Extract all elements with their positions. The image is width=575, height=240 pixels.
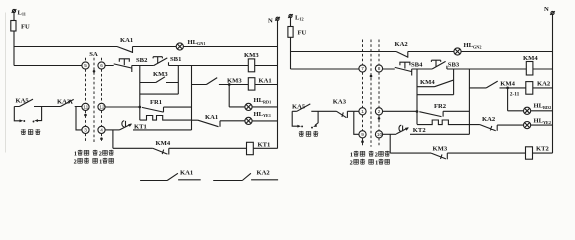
wire: HL-RD1 row <box>229 106 277 108</box>
SA position line 1 (dashed, right half) <box>362 40 364 147</box>
wire: junction column J1 (left of SB1) <box>139 66 141 121</box>
svg-text:KM3: KM3 <box>433 145 448 152</box>
svg-text:10: 10 <box>377 132 383 137</box>
SA position line 2 (dashed, middle, right half) <box>370 40 372 147</box>
svg-text:9: 9 <box>361 132 364 137</box>
wire: lamp tap down to HL-RD1 row <box>228 85 230 107</box>
contact KA2 (feeds HL-YE2) <box>480 125 524 131</box>
lamp HL-GN1 <box>176 43 183 50</box>
svg-text:1: 1 <box>99 158 102 165</box>
svg-text:KA3: KA3 <box>333 98 347 105</box>
SA position line 1 (dashed, left) <box>85 58 87 142</box>
pushbutton SB4 (NC stop) <box>395 62 412 75</box>
wire: lower tie row of SB3/KM4 block <box>417 94 454 96</box>
lamp HL-YE1 <box>245 117 252 124</box>
svg-text:SB2: SB2 <box>136 57 148 64</box>
svg-text:11: 11 <box>83 105 88 110</box>
SA contact terminal 6 <box>98 62 105 69</box>
FR1 heater element (square wave) <box>140 116 192 121</box>
svg-text:SB1: SB1 <box>170 56 181 63</box>
label position row 2 (right): 2号备 动1号备 <box>350 159 390 167</box>
SA closed-position dot (1-2 row) <box>378 117 381 120</box>
wire: KT2 coil to N <box>533 152 553 154</box>
junction (FR2 input) <box>416 110 419 113</box>
svg-text:KM3: KM3 <box>244 52 259 59</box>
contact KA3 (right half, to module) <box>337 111 354 118</box>
lamp HL-RD1 <box>245 103 252 110</box>
svg-text:4: 4 <box>100 128 103 133</box>
svg-text:KT1: KT1 <box>258 142 271 149</box>
SA contact terminal 4 <box>98 126 105 133</box>
wire: HL-YE2 to N <box>531 124 553 126</box>
svg-text:3: 3 <box>84 128 87 133</box>
SA contact terminal 1 <box>359 108 366 115</box>
SA position line 3 (dashed, right half) <box>378 40 380 147</box>
node L11 (phase terminal) <box>12 9 17 13</box>
SA closed-position dot (5-6 row, pos.2) <box>93 70 96 73</box>
time-delay contact KT1 (delayed closing NO) <box>120 121 132 130</box>
svg-text:2: 2 <box>350 159 353 166</box>
wire: KA1 coil to N <box>255 84 278 86</box>
contact KM4 (bottom row) <box>153 148 169 154</box>
SA position line 2 (dashed, middle) <box>93 58 95 142</box>
svg-text:N: N <box>268 17 273 24</box>
wire: KT1 contact to bus <box>133 129 192 131</box>
label KT2 (contact) <box>405 127 409 130</box>
svg-text:KA1: KA1 <box>120 37 133 44</box>
svg-text:7: 7 <box>361 66 364 71</box>
svg-text:KT2: KT2 <box>413 127 427 134</box>
wire: top rail (left half) <box>14 46 278 48</box>
label position row 1: 1号用 手2号用 <box>74 150 114 158</box>
contact KM4 (aux, feeds KA2 coil) <box>469 81 525 88</box>
svg-text:FU: FU <box>21 24 30 31</box>
wire: between KA5 and KA3 (right) <box>311 110 336 112</box>
wire: from SA terminal 4 <box>105 129 119 131</box>
label KT1 (contact) <box>128 124 132 127</box>
svg-text:KA3: KA3 <box>57 99 71 106</box>
coil KM4 <box>526 62 533 76</box>
lamp HL-GN2 <box>454 48 461 55</box>
wire: main row to KM3 coil <box>169 65 249 67</box>
contact KA2 (NO, on top rail) <box>396 52 408 58</box>
SA closed-position dot (11-12 row, pos.1) <box>84 114 87 117</box>
junction (FR1 input) <box>138 106 141 109</box>
svg-text:1: 1 <box>74 150 77 157</box>
contact KA1 (feeds HL-YE1) <box>192 120 245 127</box>
svg-text:KA2: KA2 <box>395 41 409 48</box>
SA contact terminal 5 <box>82 62 89 69</box>
wire: KT1 coil to N <box>253 147 277 149</box>
svg-text:SB3: SB3 <box>448 62 460 69</box>
svg-text:KM4: KM4 <box>523 55 538 62</box>
lamp HL-YE2 <box>524 122 531 129</box>
svg-text:KA2: KA2 <box>482 116 496 123</box>
wire: module stub middle (right half) <box>315 111 318 125</box>
wire: lamp tap down to HL-RD2 row <box>507 88 509 111</box>
contact KM4 (self-holding) <box>417 80 453 87</box>
wire: KT2 contact to bus <box>410 133 469 135</box>
wire: main row to KM4 coil <box>447 68 526 70</box>
SA position line 3 (dashed, right) <box>101 58 103 142</box>
SA contact terminal 3 <box>82 126 89 133</box>
contact KM3 (bottom row right) <box>431 153 447 159</box>
fuse FU (left) <box>11 21 16 32</box>
svg-text:KM4: KM4 <box>156 140 171 147</box>
svg-text:KA1: KA1 <box>259 77 272 84</box>
pushbutton SB1 (NO start) <box>153 57 168 66</box>
pushbutton SB3 (NO start) <box>431 60 447 69</box>
contact KA5 (right half, to module) <box>292 104 310 111</box>
wire: module stub left (arrow) <box>14 107 19 121</box>
SA contact terminal 9 <box>359 131 366 138</box>
svg-text:2: 2 <box>99 150 102 157</box>
svg-text:KA2: KA2 <box>537 81 551 88</box>
svg-text:KA5: KA5 <box>16 98 30 105</box>
thermal relay contact FR1 <box>142 107 192 112</box>
label 接模块 (left) <box>21 129 26 134</box>
svg-text:KT2: KT2 <box>536 145 550 152</box>
wire: between KA5 and KA3 <box>34 106 60 108</box>
wire: module stub left (right half) <box>292 111 298 126</box>
svg-text:FR1: FR1 <box>150 99 162 106</box>
junction (lamp tap on KA2 coil row) <box>506 87 509 90</box>
coil KM3 <box>248 59 254 72</box>
FR2 heater element (square wave) <box>417 120 480 125</box>
svg-text:KA1: KA1 <box>205 114 218 121</box>
wire: neutral rail N (left half) <box>277 20 279 148</box>
wire: between SB4 and SB3 <box>412 68 432 70</box>
coil KA2 <box>526 82 533 95</box>
wire: lower tie row of SB1/KM3 block <box>140 93 179 95</box>
node L12 (phase terminal) <box>288 14 293 18</box>
SA contact terminal 11 <box>82 103 89 110</box>
wire: junction column J2 (right half) <box>453 69 455 95</box>
thermal relay contact FR2 <box>419 111 469 116</box>
wire: HL-RD2 row <box>508 110 553 112</box>
wire: from SA terminal 2 to FR2 <box>383 110 417 112</box>
svg-text:2: 2 <box>74 158 77 165</box>
svg-text:2-11: 2-11 <box>510 91 520 97</box>
svg-text:12: 12 <box>99 105 105 110</box>
contact KA1 (bottom legend) <box>140 173 201 180</box>
wire: KM3 coil to N <box>255 65 278 67</box>
wire: HL-YE1 to N <box>252 120 277 122</box>
junction (lamp tap on KA1 coil row) <box>228 83 231 86</box>
svg-text:1: 1 <box>375 159 378 166</box>
SA contact terminal 8 <box>375 65 382 72</box>
faint scan artifact line <box>5 13 7 153</box>
fuse FU (right) <box>288 27 293 38</box>
SA closed-position dot (9-10 row) <box>361 140 364 143</box>
coil KT1 <box>247 142 254 154</box>
wire: left supply rail x=13.5 <box>13 13 15 66</box>
svg-text:8: 8 <box>378 66 381 71</box>
wire: junction column J2 (right of SB1) <box>177 66 179 95</box>
contact KA2 (bottom legend) <box>213 173 278 180</box>
lamp HL-RD2 <box>524 107 531 114</box>
svg-text:SB4: SB4 <box>411 62 423 69</box>
contact KM3 (self-holding) <box>140 77 179 83</box>
svg-text:KM3: KM3 <box>153 71 168 78</box>
contact KA5 (to module) <box>14 99 33 106</box>
svg-text:FU: FU <box>298 30 307 37</box>
wire: KM4 coil to N <box>533 68 553 70</box>
wire: main vertical bus x=191 <box>191 66 193 131</box>
wire: bottom row (KT1 coil circuit) <box>113 147 247 149</box>
wire: bottom row (KT2 coil circuit) <box>390 152 525 154</box>
svg-text:N: N <box>544 6 549 13</box>
wire: link from KA3 row down to SA terminal 9 <box>354 111 359 134</box>
time-delay contact KT2 (delayed closing NO) <box>396 125 408 134</box>
coil KT2 <box>526 147 533 159</box>
contact KM3 (aux, feeds KA1 coil) <box>192 78 249 85</box>
wire: main vertical bus x=468.9 <box>468 69 470 134</box>
wire: from SA terminal 10 <box>383 133 397 135</box>
wire: right supply rail x=290 <box>290 18 292 69</box>
label position row 1 (right): 1号用 手2号用 <box>350 151 390 159</box>
coil KA1 <box>248 78 255 90</box>
svg-text:KM4: KM4 <box>420 79 435 86</box>
svg-text:KA1: KA1 <box>180 170 193 177</box>
wire: drop to bottom row (right) <box>389 134 391 153</box>
contact KA3 (to module) <box>60 99 82 106</box>
SA closed-position dot (7-8 row) <box>370 75 373 78</box>
SA contact terminal 2 <box>375 108 382 115</box>
svg-text:KA2: KA2 <box>257 170 271 177</box>
label 接模块 (right) <box>299 131 304 136</box>
node N (left half) <box>275 17 280 21</box>
svg-text:1: 1 <box>350 151 353 158</box>
SA contact terminal 12 <box>98 103 105 110</box>
svg-text:FR2: FR2 <box>434 103 447 110</box>
wire: main row to selector SA (right) <box>291 68 395 70</box>
svg-text:KA5: KA5 <box>292 103 306 110</box>
wire: drop to bottom row <box>112 130 114 148</box>
svg-text:5: 5 <box>84 63 87 68</box>
svg-text:2: 2 <box>375 151 378 158</box>
pushbutton SB2 (NC stop) <box>114 59 132 72</box>
label position row 2: 2号备 动1号备 <box>74 158 114 166</box>
SA closed-position dot (3-4 row, pos.3) <box>100 137 103 140</box>
wire: module stub middle (arrow) <box>38 107 42 121</box>
wire: row to selector SA (left) <box>14 65 114 67</box>
wire: junction column J1 (right half) <box>416 69 418 124</box>
svg-text:2: 2 <box>378 109 381 114</box>
node N (right half) <box>550 11 555 15</box>
svg-text:6: 6 <box>100 63 103 68</box>
SA contact terminal 7 <box>359 65 366 72</box>
wire: neutral rail N (right half) <box>552 15 554 154</box>
svg-text:1: 1 <box>361 109 364 114</box>
wire: from SA terminal 12 to FR1 <box>105 106 140 108</box>
wire: top rail (right half) <box>291 51 553 53</box>
SA contact terminal 10 <box>375 131 382 138</box>
svg-text:SA: SA <box>89 51 98 58</box>
wire: between SB2 and SB1 <box>132 65 154 67</box>
wire: link from KA3 row down to SA terminal 3 <box>76 107 82 130</box>
wire: KA2 coil to N <box>533 87 553 89</box>
contact KA1 (NO, on top rail) <box>117 47 133 54</box>
